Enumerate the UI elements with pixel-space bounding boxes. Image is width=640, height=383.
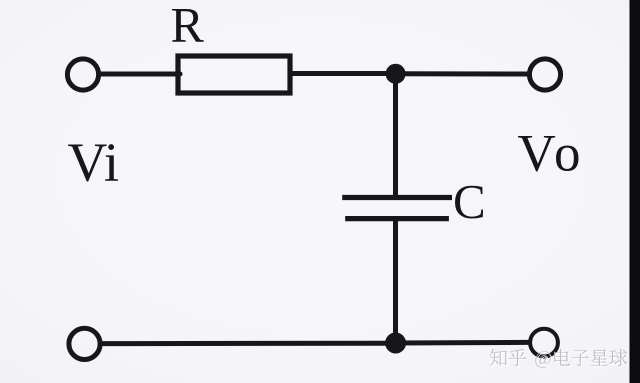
- svg-text:R: R: [171, 0, 205, 52]
- terminal input top (Vi +): [67, 59, 98, 90]
- wire capacitor bottom plate to node B: [393, 221, 398, 343]
- watermark 知乎 @电子星球 gray layer: [490, 349, 627, 368]
- terminal output bottom: [530, 329, 558, 357]
- svg-text:Vo: Vo: [518, 124, 586, 182]
- wire node A down to capacitor top plate: [393, 74, 398, 196]
- watermark 知乎 @电子星球 white emboss layer: [491, 350, 628, 369]
- svg-text:C: C: [453, 174, 486, 229]
- photo dark right edge: [630, 0, 640, 383]
- wire node A to output terminal: [396, 71, 527, 76]
- terminal input bottom: [69, 328, 100, 359]
- capacitor C bottom plate: [345, 216, 449, 221]
- svg-text:Vi: Vi: [68, 131, 120, 192]
- node B junction dot: [385, 333, 406, 354]
- capacitor C top plate: [342, 195, 452, 200]
- node A junction dot: [386, 64, 406, 84]
- wire resistor to node A: [290, 71, 396, 76]
- terminal output top (Vo +): [529, 59, 560, 90]
- wire bottom rail left (input terminal to node B): [102, 341, 396, 346]
- wire input terminal to resistor: [101, 72, 180, 77]
- wire bottom rail right (node B to output terminal): [396, 340, 528, 346]
- resistor R body: [178, 56, 290, 93]
